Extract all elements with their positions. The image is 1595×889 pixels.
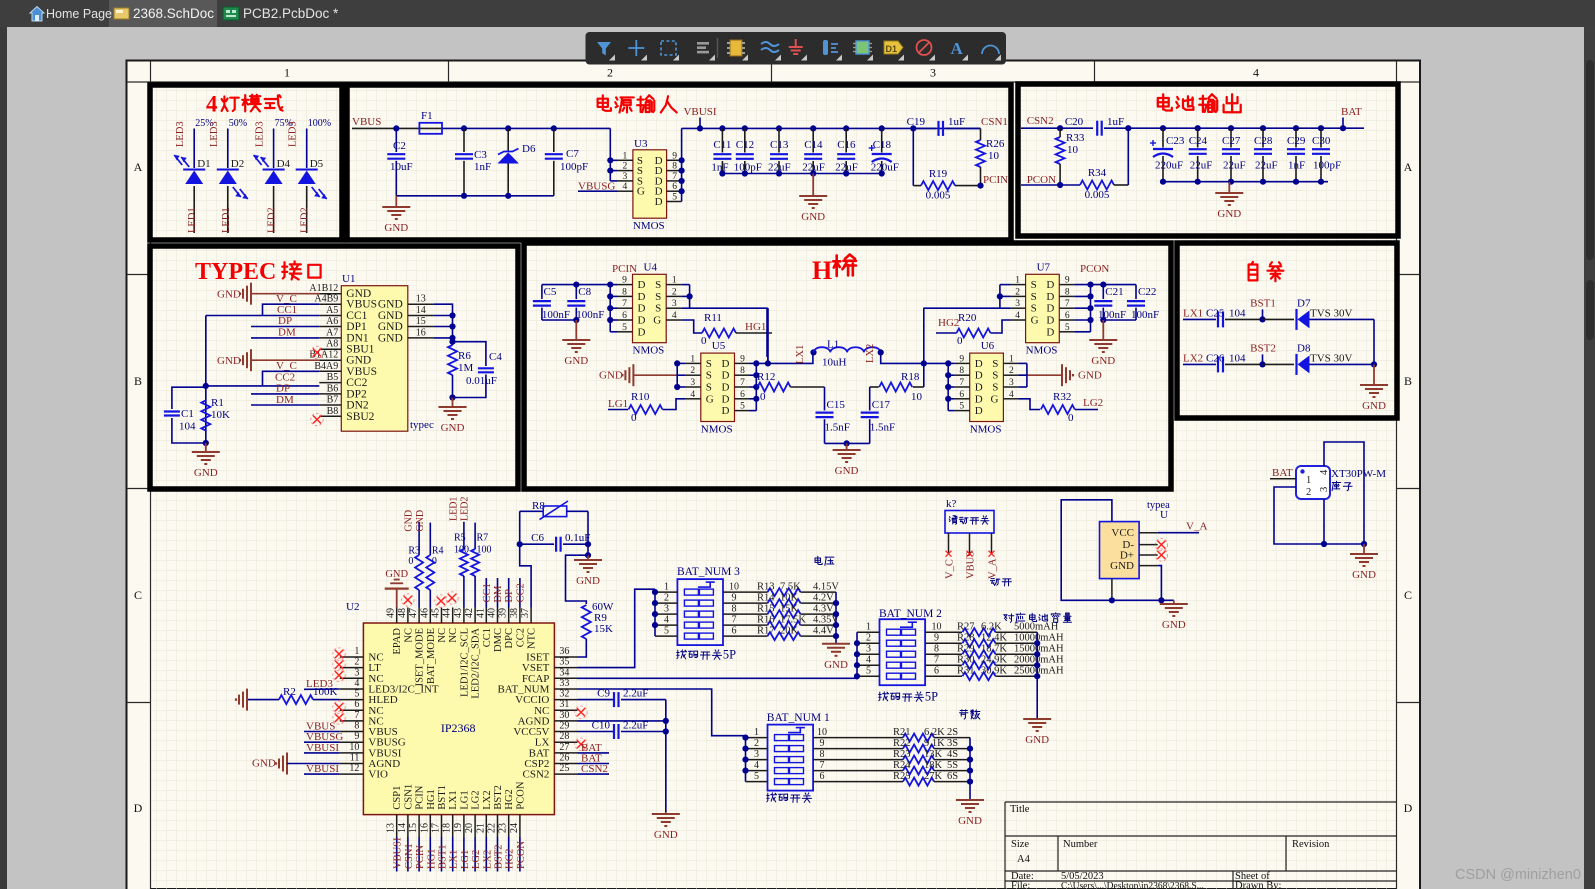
svg-text:A5: A5 (326, 305, 338, 316)
svg-text:4: 4 (1009, 390, 1014, 400)
schdoc tab icon (114, 8, 129, 19)
svg-text:NC: NC (403, 628, 414, 643)
svg-text:0: 0 (760, 391, 766, 403)
red X no-ERC top pins 48 45 44 (404, 596, 412, 604)
svg-text:GND: GND (385, 569, 408, 580)
pin 29 VCC5V (554, 731, 577, 733)
zener diode D6 (505, 125, 511, 131)
svg-text:BAT: BAT (1341, 106, 1362, 118)
svg-text:C: C (134, 588, 142, 602)
wires XT30 (1324, 442, 1364, 544)
svg-text:220uF: 220uF (871, 162, 899, 174)
svg-text:HG1: HG1 (745, 321, 766, 333)
svg-text:D: D (638, 291, 646, 303)
svg-text:8: 8 (672, 162, 677, 172)
svg-text:1: 1 (354, 646, 359, 657)
svg-text:21: 21 (475, 823, 486, 833)
wire VBUSI row (682, 127, 914, 129)
svg-text:3: 3 (866, 644, 871, 655)
svg-text:GND: GND (1352, 569, 1376, 581)
pin A6 DP1 (319, 326, 341, 328)
svg-text:14: 14 (397, 823, 408, 833)
svg-text:5P: 5P (723, 647, 736, 661)
svg-text:33: 33 (559, 678, 569, 689)
svg-text:BST1: BST1 (438, 844, 449, 869)
pin 5 HLED (340, 699, 364, 701)
svg-text:GND: GND (1078, 370, 1102, 382)
svg-text:D: D (975, 393, 983, 405)
svg-text:2: 2 (1015, 287, 1020, 297)
section box H-bridge (524, 243, 1171, 489)
pin 4 LED3/I2C_INT (340, 688, 364, 690)
svg-text:BAT_NUM 2: BAT_NUM 2 (879, 608, 942, 620)
svg-text:R11: R11 (704, 312, 722, 324)
svg-text:6: 6 (934, 666, 939, 677)
resistor R13 (723, 591, 768, 593)
pin 48 NC (407, 608, 409, 624)
ground GND under C6 (587, 555, 589, 560)
svg-text:BAT: BAT (1272, 467, 1293, 479)
svg-text:4.2V: 4.2V (813, 593, 834, 604)
svg-text:CSN1: CSN1 (403, 784, 414, 810)
svg-text:20K: 20K (780, 626, 799, 637)
svg-text:R1: R1 (211, 397, 224, 409)
svg-text:8: 8 (732, 604, 737, 615)
svg-text:C5: C5 (544, 286, 557, 298)
svg-text:22: 22 (487, 823, 498, 833)
svg-text:LG2: LG2 (1083, 397, 1103, 409)
svg-text:9: 9 (934, 633, 939, 644)
resistor R17 (723, 635, 768, 637)
chip U2 IP2368 (363, 623, 554, 815)
toolbar no-erc icon (917, 40, 932, 55)
svg-text:Home Page: Home Page (46, 7, 112, 21)
svg-text:4S: 4S (947, 749, 958, 760)
svg-text:LED1: LED1 (187, 207, 198, 233)
svg-text:D7: D7 (1297, 297, 1311, 309)
svg-text:Size: Size (1011, 839, 1029, 850)
pin B7 DN2 (319, 404, 341, 406)
svg-text:PCON: PCON (516, 841, 527, 869)
svg-text:GND: GND (378, 299, 403, 311)
svg-text:R10: R10 (631, 391, 650, 403)
capacitor C23 (1160, 125, 1166, 131)
svg-text:10K: 10K (780, 593, 799, 604)
top tab bar (0, 0, 1595, 27)
svg-text:LED3: LED3 (255, 121, 266, 147)
svg-text:S: S (706, 358, 712, 370)
svg-text:22uF: 22uF (768, 162, 791, 174)
svg-text:V_A: V_A (988, 558, 999, 579)
svg-text:LED2/I2C_SDA: LED2/I2C_SDA (471, 628, 482, 699)
svg-text:0: 0 (701, 335, 707, 347)
svg-text:220uF: 220uF (1155, 160, 1183, 172)
pin 36 ISET (554, 656, 577, 658)
svg-text:D: D (975, 358, 983, 370)
svg-text:8: 8 (820, 749, 825, 760)
svg-text:13: 13 (386, 823, 397, 833)
pin 45 NC (441, 608, 443, 624)
svg-text:3: 3 (754, 749, 759, 760)
svg-text:8: 8 (1065, 287, 1070, 297)
toolbar part icon (730, 40, 742, 56)
svg-text:CSN1: CSN1 (404, 843, 415, 869)
svg-text:17.5K: 17.5K (780, 615, 806, 626)
toolbar wire icon (761, 42, 779, 46)
wire AGND pin30 (578, 720, 666, 722)
nmos U5 (701, 353, 735, 421)
svg-text:4: 4 (206, 92, 218, 117)
wire to U3 (609, 128, 611, 181)
svg-text:C7: C7 (566, 148, 579, 160)
svg-text:C16: C16 (837, 139, 856, 151)
svg-text:GND: GND (217, 355, 241, 367)
svg-text:CSN2: CSN2 (522, 769, 549, 781)
svg-text:34: 34 (559, 667, 569, 678)
svg-text:7: 7 (622, 299, 627, 309)
toolbar separator (717, 38, 719, 58)
svg-text:1: 1 (690, 354, 695, 364)
svg-text:3S: 3S (947, 738, 958, 749)
svg-text:R34: R34 (1088, 167, 1107, 179)
svg-text:NMOS: NMOS (970, 424, 1002, 436)
svg-text:PCIN: PCIN (415, 785, 426, 809)
svg-text:NC: NC (437, 628, 448, 643)
svg-text:10uF: 10uF (390, 161, 413, 173)
svg-text:GND: GND (384, 222, 408, 234)
svg-text:Drawn By:: Drawn By: (1235, 881, 1281, 889)
svg-text:4: 4 (754, 760, 759, 771)
svg-text:LED1: LED1 (448, 497, 459, 521)
svg-text:D: D (722, 405, 730, 417)
svg-text:A: A (134, 160, 143, 174)
svg-text:2: 2 (672, 287, 677, 297)
svg-text:5: 5 (664, 626, 669, 637)
svg-text:1: 1 (1009, 354, 1014, 364)
ground GND R1 (205, 443, 207, 452)
resistor R27 (925, 631, 962, 633)
ground GND under C21 (1102, 320, 1104, 340)
ground GND BAT_NUM2 (1023, 718, 1051, 720)
svg-text:5S: 5S (947, 760, 958, 771)
svg-text:100%: 100% (308, 118, 331, 129)
svg-text:A4B9: A4B9 (314, 294, 338, 305)
svg-text:30: 30 (559, 710, 569, 721)
floating toolbar (586, 32, 1007, 65)
svg-text:VBUS: VBUS (352, 116, 381, 128)
resistor R10 (608, 409, 628, 411)
svg-text:D: D (134, 801, 143, 815)
svg-text:C30: C30 (1312, 135, 1331, 147)
svg-text:S: S (1031, 291, 1037, 303)
svg-text:C26: C26 (1206, 352, 1225, 364)
svg-text:GND: GND (217, 289, 241, 301)
svg-text:22uF: 22uF (1190, 160, 1213, 172)
svg-text:7: 7 (1065, 299, 1070, 309)
svg-text:7: 7 (820, 760, 825, 771)
svg-text:BAT_NUM 1: BAT_NUM 1 (767, 712, 830, 724)
svg-text:1M: 1M (458, 362, 474, 374)
capacitor C15 (824, 387, 826, 410)
svg-text:100K: 100K (313, 686, 338, 698)
svg-text:8: 8 (740, 366, 745, 376)
pin 49 EPAD (396, 608, 398, 624)
toolbar arc icon (982, 46, 999, 55)
svg-text:C1: C1 (181, 408, 194, 420)
svg-text:R22: R22 (893, 738, 911, 749)
pin 21 LX2 (485, 815, 487, 837)
wire net LG2 (474, 837, 476, 872)
svg-text:5P: 5P (925, 689, 938, 703)
svg-text:R33: R33 (1066, 132, 1085, 144)
ground GND xt30 (1363, 544, 1365, 554)
resistor R30 (925, 664, 962, 666)
svg-text:B4A9: B4A9 (314, 361, 338, 372)
pin 18 LX1 (452, 815, 454, 837)
pin 40 DMC (497, 608, 499, 624)
wire C5 C8 rail (542, 319, 576, 321)
svg-text:6: 6 (1065, 311, 1070, 321)
capacitor C2 (393, 125, 399, 131)
svg-text:5/05/2023: 5/05/2023 (1061, 871, 1104, 882)
svg-text:0.005: 0.005 (1085, 189, 1110, 201)
pin 33 BAT_NUM (554, 688, 577, 690)
svg-text:1nF: 1nF (474, 161, 491, 173)
fuse F1 (419, 127, 442, 129)
svg-text:4: 4 (1319, 469, 1330, 475)
resistor R14 (723, 602, 768, 604)
svg-text:NMOS: NMOS (633, 220, 665, 232)
svg-text:LED1: LED1 (221, 207, 232, 233)
svg-text:VBUS: VBUS (966, 551, 977, 579)
svg-text:4.3V: 4.3V (813, 604, 834, 615)
pin B8 SBU2 (319, 415, 341, 417)
svg-text:46: 46 (419, 608, 430, 618)
capacitor C7 (551, 125, 557, 131)
ground GND under C8 (575, 320, 577, 340)
svg-text:C2: C2 (393, 140, 406, 152)
wire U6 right bus (1026, 363, 1028, 387)
svg-text:A: A (950, 39, 963, 58)
svg-text:2: 2 (754, 738, 759, 749)
capacitor C17 (869, 387, 871, 410)
svg-text:DP: DP (276, 383, 290, 395)
svg-text:LED3: LED3 (175, 121, 186, 147)
wire C9 C10 vertical to gnd (665, 700, 667, 812)
svg-text:D2: D2 (231, 158, 244, 170)
svg-text:15K: 15K (594, 623, 613, 635)
frame margin strips (128, 62, 151, 889)
svg-text:D: D (975, 405, 983, 417)
svg-text:1nF: 1nF (711, 162, 728, 174)
svg-text:9: 9 (820, 738, 825, 749)
svg-text:2: 2 (623, 162, 628, 172)
capacitor C25 (1183, 318, 1216, 320)
pin 41 CC1 (485, 608, 487, 624)
toolbar filter icon (597, 42, 611, 56)
resistor R26 (980, 128, 982, 140)
svg-text:1: 1 (623, 151, 628, 161)
svg-text:A6: A6 (326, 316, 338, 327)
svg-text:VIO: VIO (368, 769, 388, 781)
svg-text:9: 9 (1065, 276, 1070, 286)
toolbar power icon (823, 40, 828, 55)
pin 12 VIO (340, 773, 364, 775)
wire bottom rail C2 group (396, 195, 554, 197)
resistor R29 (925, 653, 962, 655)
svg-text:BAT_MODE: BAT_MODE (426, 628, 437, 684)
svg-text:C21: C21 (1105, 286, 1123, 298)
svg-text:GND: GND (415, 510, 426, 532)
title block (1005, 801, 1397, 803)
capacitor C9 (578, 699, 614, 701)
connector XT30PW-M (1296, 466, 1330, 499)
svg-text:D: D (638, 326, 646, 338)
svg-text:13K: 13K (924, 749, 943, 760)
svg-text:BST2: BST2 (494, 844, 505, 869)
pin 35 VSET (554, 667, 577, 669)
svg-text:2: 2 (664, 593, 669, 604)
resistor R31 (925, 675, 962, 677)
svg-text:G: G (637, 186, 645, 198)
pin 7 NC (340, 720, 364, 722)
svg-text:LED1/I2C_SCL: LED1/I2C_SCL (459, 628, 470, 697)
svg-text:1.5nF: 1.5nF (825, 422, 850, 434)
svg-text:S: S (655, 279, 661, 291)
svg-text:11: 11 (350, 753, 360, 764)
svg-text:10uH: 10uH (822, 356, 847, 368)
capacitor C18 (879, 125, 885, 131)
svg-text:R17: R17 (757, 626, 775, 637)
svg-text:R18: R18 (901, 371, 920, 383)
svg-text:VBUS: VBUS (346, 366, 377, 378)
svg-text:18.7K: 18.7K (981, 644, 1007, 655)
svg-text:D: D (1046, 303, 1054, 315)
svg-text:LX1: LX1 (449, 850, 460, 869)
svg-text:NMOS: NMOS (633, 345, 665, 357)
pin VCC (1139, 532, 1158, 534)
pin GND (1139, 565, 1158, 567)
svg-text:BST1: BST1 (437, 785, 448, 810)
svg-text:43: 43 (453, 608, 464, 618)
resistor R33 (1057, 125, 1063, 131)
svg-text:100pF: 100pF (1313, 160, 1341, 172)
svg-text:R6: R6 (458, 350, 471, 362)
capacitor C13 (776, 125, 782, 131)
wire C21 C22 rail (1103, 319, 1136, 321)
svg-text:C17: C17 (872, 399, 891, 411)
svg-text:Revision: Revision (1292, 839, 1330, 850)
toolbar move icon (635, 40, 637, 56)
svg-text:9: 9 (622, 276, 627, 286)
svg-text:LED2: LED2 (267, 207, 278, 233)
wire FCAP long (578, 677, 858, 679)
svg-text:6: 6 (732, 626, 737, 637)
DIP switch BAT_NUM 1 (768, 725, 814, 791)
capacitor C19 (910, 125, 916, 131)
toolbar gnd icon (795, 39, 797, 47)
svg-text:10: 10 (911, 391, 923, 403)
wire net BST1 (441, 837, 443, 872)
svg-text:D: D (1046, 291, 1054, 303)
svg-text:XT30PW-M: XT30PW-M (1331, 468, 1386, 480)
ground GND below C2 (395, 196, 397, 207)
capacitor C28 (1260, 125, 1266, 131)
DIP switch BAT_NUM 2 (880, 619, 926, 685)
svg-text:DM: DM (278, 327, 296, 339)
svg-text:4.15V: 4.15V (813, 582, 839, 593)
svg-text:0: 0 (631, 412, 637, 424)
svg-text:6: 6 (354, 699, 359, 710)
svg-text:DMC: DMC (493, 628, 504, 652)
capacitor C14 (810, 125, 816, 131)
pin 1 NC (340, 656, 364, 658)
svg-text:38: 38 (509, 608, 520, 618)
wire VBUS row (352, 127, 419, 129)
svg-text:R30: R30 (957, 655, 975, 666)
svg-text:100pF: 100pF (734, 162, 762, 174)
svg-text:GND: GND (378, 332, 403, 344)
red X no-ERC pins 31 28 (577, 708, 585, 716)
svg-text:9: 9 (354, 731, 359, 742)
svg-text:C9: C9 (597, 688, 610, 700)
svg-text:16: 16 (416, 327, 426, 338)
wire cap feed U4 (542, 284, 610, 286)
svg-text:S: S (992, 358, 998, 370)
svg-text:50%: 50% (229, 118, 247, 129)
red X D- D+ (1157, 541, 1165, 549)
svg-text:1uF: 1uF (948, 116, 965, 128)
svg-text:S: S (655, 291, 661, 303)
svg-text:D: D (722, 382, 730, 394)
svg-text:SBU2: SBU2 (346, 411, 374, 423)
pin 31 NC (554, 709, 577, 711)
svg-text:DM: DM (493, 585, 504, 603)
wire U6 left bus (947, 363, 949, 410)
svg-text:VCC: VCC (1111, 527, 1134, 539)
pin 42 LED2/I2C_SDA (474, 608, 476, 624)
svg-text:EPAD: EPAD (392, 628, 403, 655)
svg-text:GND: GND (1162, 619, 1186, 631)
svg-text:1: 1 (1015, 276, 1020, 286)
svg-text:BST2: BST2 (493, 785, 504, 810)
svg-text:C13: C13 (770, 139, 789, 151)
ground GND H-bridge center (846, 443, 848, 450)
svg-text:ISET_MODE: ISET_MODE (415, 628, 426, 686)
frame row ticks (127, 274, 151, 276)
svg-text:10: 10 (729, 582, 739, 593)
svg-text:H: H (812, 256, 832, 285)
svg-text:TVS 30V: TVS 30V (1310, 307, 1353, 319)
toolbar align icon (697, 42, 709, 45)
wires U3 left bus (610, 159, 618, 161)
svg-text:G: G (653, 315, 661, 327)
svg-text:L1: L1 (827, 338, 839, 350)
svg-text:C14: C14 (804, 139, 823, 151)
svg-text:NMOS: NMOS (1026, 345, 1058, 357)
capacitor C12 (742, 125, 748, 131)
svg-text:Title: Title (1010, 804, 1030, 815)
capacitor C11 (719, 125, 725, 131)
svg-text:B: B (134, 374, 142, 388)
svg-text:D1: D1 (886, 44, 898, 54)
svg-text:S: S (992, 382, 998, 394)
svg-text:TYPEC: TYPEC (195, 259, 276, 285)
wires U3 right bus (681, 128, 683, 201)
svg-text:10: 10 (988, 150, 1000, 162)
pin A7 DN1 (319, 337, 341, 339)
svg-text:5: 5 (740, 402, 745, 412)
